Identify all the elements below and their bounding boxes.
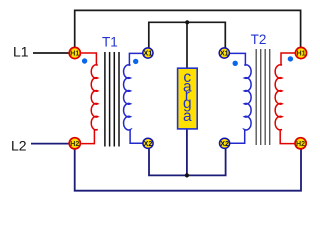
svg-text:T1: T1 (102, 35, 118, 50)
terminal X2 of T1 (143, 138, 153, 148)
terminal H1 of T2 (295, 47, 306, 58)
wire: X1 bus X1(T1) to X1(T2) (149, 22, 226, 47)
transformer T1 secondary winding (blue) (124, 53, 143, 143)
polarity dot T1 secondary (133, 59, 138, 64)
load carga box (178, 68, 198, 129)
polarity dot T2 primary (288, 56, 293, 61)
svg-text:X2: X2 (144, 140, 153, 148)
transformer T1 primary winding (red) (81, 53, 98, 144)
wire: mid bottom bus X2(T1) to X2(T2) (149, 149, 226, 176)
svg-text:H2: H2 (296, 140, 305, 148)
transformer T2 primary winding (red, right) (275, 53, 295, 144)
terminal X1 of T1 (143, 48, 153, 58)
wire: carga top drop (186, 22, 188, 68)
wire: L2 lead (31, 143, 70, 145)
transformer T2 core (256, 49, 270, 145)
svg-text:L1: L1 (13, 44, 29, 60)
svg-text:X1: X1 (144, 50, 153, 58)
wire: top bus H1(T1) to H1(T2) (75, 10, 301, 47)
load carga text (183, 69, 192, 125)
terminal X2 of T2 (220, 138, 230, 148)
junction dot bottom (185, 173, 189, 177)
polarity dot T1 primary (82, 58, 87, 63)
svg-text:X1: X1 (220, 50, 229, 58)
wire: carga bottom drop (186, 129, 188, 175)
polarity dot T2 secondary (233, 61, 238, 66)
junction dot top (185, 20, 189, 24)
terminal X1 of T2 (219, 48, 229, 58)
wire: L1 lead (33, 52, 70, 54)
svg-text:H2: H2 (70, 140, 79, 148)
svg-text:a: a (183, 108, 192, 125)
svg-text:H1: H1 (70, 50, 79, 58)
svg-text:L2: L2 (11, 137, 27, 153)
terminal H2 of T1 (69, 138, 80, 149)
svg-text:X2: X2 (220, 140, 229, 148)
wire: bottom bus H2(T1) to H2(T2) (75, 149, 301, 191)
svg-text:H1: H1 (296, 50, 305, 58)
terminal H1 of T1 (69, 47, 80, 58)
transformer T2 secondary winding (blue, left) (230, 53, 251, 143)
terminal H2 of T2 (295, 138, 306, 149)
transformer T1 core (105, 52, 119, 147)
svg-text:T2: T2 (251, 32, 267, 47)
